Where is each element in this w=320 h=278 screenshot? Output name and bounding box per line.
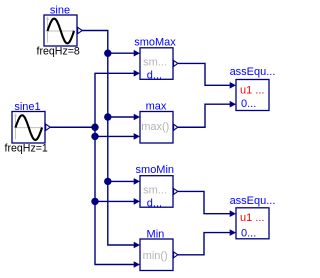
svg-text:freqHz=8: freqHz=8	[37, 45, 80, 57]
sine source block sine	[44, 15, 82, 46]
label sine1	[14, 101, 40, 113]
wire smoMin.y to assEqu1.u1	[178, 191, 231, 213]
junction dot sine1 trunk / max.u2	[91, 133, 98, 140]
sine source block sine1	[12, 112, 50, 144]
block assEqu (top assert equality)	[230, 80, 269, 111]
svg-text:sm...: sm...	[143, 57, 167, 69]
block Min	[134, 239, 178, 271]
svg-text:d...: d...	[147, 70, 162, 82]
junction dot sine1 trunk / smoMin.u2	[91, 198, 98, 205]
junction dot sine1 joins trunk	[91, 124, 98, 131]
label smoMin	[136, 164, 175, 176]
label smoMax	[134, 37, 176, 49]
svg-text:assEqu...: assEqu...	[230, 66, 276, 78]
block smoMax	[134, 48, 178, 82]
value label freqHz=1	[5, 142, 48, 154]
svg-text:0...: 0...	[241, 98, 256, 110]
svg-text:d...: d...	[147, 198, 162, 210]
wire sine.y trunk	[82, 31, 134, 246]
wire branch to smoMax.u1	[108, 52, 134, 54]
label assEqu1...	[230, 195, 276, 207]
label assEqu...	[230, 66, 276, 78]
junction dot sine trunk / max.u1	[104, 113, 111, 120]
value label freqHz=8	[37, 45, 80, 57]
wire branch to max.u1	[108, 116, 134, 118]
wire smoMax.y to assEqu.u1	[178, 63, 231, 85]
svg-text:smoMin: smoMin	[136, 164, 175, 176]
wire sine1.y to trunk	[50, 126, 95, 128]
block max	[134, 112, 178, 144]
svg-text:sine: sine	[50, 5, 70, 17]
junction dot sine trunk / smoMax.u1	[104, 50, 111, 57]
svg-text:sine1: sine1	[14, 101, 40, 113]
junction dot sine trunk / smoMin.u1	[104, 178, 111, 185]
wire max.y to assEqu.u2	[178, 104, 231, 127]
svg-text:max: max	[146, 100, 167, 112]
wire sine1 trunk	[95, 73, 134, 264]
label Min	[147, 228, 165, 240]
svg-text:Min: Min	[147, 228, 165, 240]
svg-text:u1 ...: u1 ...	[240, 84, 264, 96]
label max	[146, 100, 167, 112]
wire Min.y to assEqu1.u2	[178, 233, 231, 255]
svg-text:u1 ...: u1 ...	[240, 212, 264, 224]
block assEqu1 (bottom assert equality)	[230, 208, 269, 240]
wire branch to smoMin.u2	[95, 200, 134, 202]
svg-text:assEqu...: assEqu...	[230, 195, 276, 207]
label sine	[50, 5, 70, 17]
svg-text:smoMax: smoMax	[134, 37, 176, 49]
svg-text:freqHz=1: freqHz=1	[5, 142, 48, 154]
wire branch to max.u2	[95, 135, 134, 137]
wire branch to smoMin.u1	[108, 180, 134, 182]
svg-text:0...: 0...	[241, 227, 256, 239]
block smoMin	[134, 176, 178, 210]
svg-text:max(): max()	[141, 121, 169, 133]
svg-text:min(): min()	[143, 250, 168, 262]
svg-text:sm...: sm...	[143, 185, 167, 197]
